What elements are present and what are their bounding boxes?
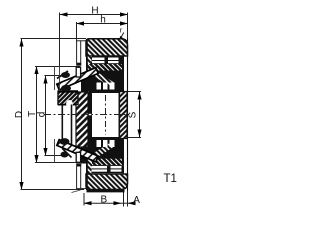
svg-text:B: B bbox=[100, 195, 107, 206]
svg-text:D: D bbox=[14, 111, 25, 118]
svg-text:A: A bbox=[133, 195, 140, 206]
svg-text:T1: T1 bbox=[164, 173, 177, 185]
svg-text:h: h bbox=[100, 14, 106, 25]
svg-text:H: H bbox=[91, 6, 98, 17]
svg-text:r: r bbox=[120, 26, 123, 35]
svg-text:d: d bbox=[36, 112, 47, 118]
svg-text:S: S bbox=[127, 111, 138, 118]
